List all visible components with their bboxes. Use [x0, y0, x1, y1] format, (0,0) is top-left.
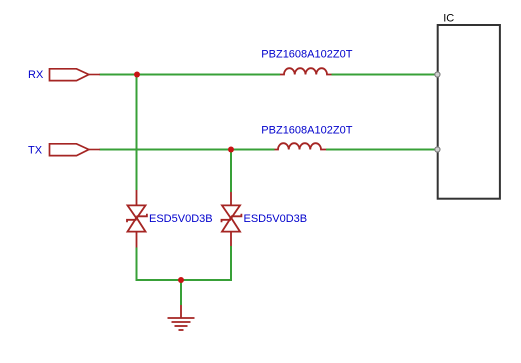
wire ground stem: [180, 280, 182, 305]
junction node ground: [178, 277, 184, 283]
svg-text:TX: TX: [28, 145, 43, 157]
wire vertical from TX junction to diode D2: [230, 150, 232, 193]
inductor L2: [275, 143, 327, 149]
port TX: [50, 144, 101, 156]
pin dot IC pin 2: [435, 147, 440, 152]
wire RX horizontal right (inductor to IC): [332, 74, 438, 76]
label D2 value ESD5V0D3B: [244, 213, 308, 225]
wire bottom horizontal net: [136, 279, 233, 281]
wire RX horizontal left (port to junction): [100, 74, 281, 76]
wire TX horizontal left (port to junction): [100, 149, 275, 151]
wire vertical from diode D1 to bottom net: [136, 248, 138, 281]
wire vertical from diode D2 to bottom net: [230, 246, 232, 280]
IC U1 box: [438, 25, 500, 199]
svg-text:ESD5V0D3B: ESD5V0D3B: [244, 213, 308, 225]
label L1 value PBZ1608A102Z0T: [261, 49, 352, 61]
ground: [168, 305, 195, 330]
svg-text:IC: IC: [443, 13, 454, 25]
svg-text:ESD5V0D3B: ESD5V0D3B: [149, 213, 213, 225]
svg-text:PBZ1608A102Z0T: PBZ1608A102Z0T: [261, 125, 352, 137]
diode D1 (bidirectional TVS): [127, 190, 147, 248]
svg-text:RX: RX: [28, 69, 44, 81]
junction node TX: [228, 147, 234, 153]
inductor L1: [280, 68, 332, 74]
svg-text:PBZ1608A102Z0T: PBZ1608A102Z0T: [261, 49, 352, 61]
diode D2 (bidirectional TVS): [222, 192, 242, 246]
label RX: [28, 69, 44, 81]
port RX: [50, 69, 101, 81]
pin dot IC pin 1: [435, 72, 440, 77]
label IC: [443, 13, 454, 25]
junction node RX: [134, 72, 140, 78]
label TX: [28, 145, 43, 157]
wire vertical from RX junction to diode D1: [136, 75, 138, 191]
label D1 value ESD5V0D3B: [149, 213, 213, 225]
wire TX horizontal right (inductor to IC): [326, 149, 438, 151]
label L2 value PBZ1608A102Z0T: [261, 125, 352, 137]
